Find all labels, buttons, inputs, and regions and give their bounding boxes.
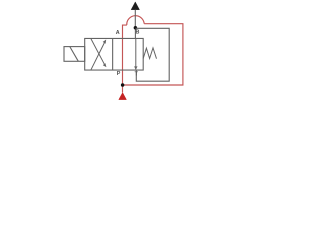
valve right position flow path B->T with arrow (135, 38, 137, 69)
wire T to exhaust junction (black) (136, 28, 170, 81)
wire loop right side (red) (123, 24, 183, 85)
svg-text:A: A (116, 30, 120, 36)
junction dot node P (121, 83, 125, 87)
return spring (143, 48, 156, 59)
exhaust line (134, 10, 136, 28)
wire B riser (134, 28, 136, 39)
valve left position crossed flow arrows (91, 39, 106, 70)
svg-text:T: T (135, 71, 139, 77)
svg-text:P: P (117, 71, 121, 77)
valve position divider (112, 38, 114, 70)
exhaust arrow (black, top) (131, 2, 139, 10)
junction dot node B/exhaust (134, 26, 138, 30)
valve V1 body (two position squares) (85, 38, 144, 70)
solenoid Y1 (64, 47, 85, 62)
pressure line P (red, valve interior and down to source) (122, 38, 124, 92)
pressure source triangle (red) (119, 93, 127, 100)
wire A to loop (red, from port A up and right) (123, 25, 127, 38)
svg-text:B: B (136, 30, 140, 36)
line jump arc over exhaust line (127, 16, 144, 25)
